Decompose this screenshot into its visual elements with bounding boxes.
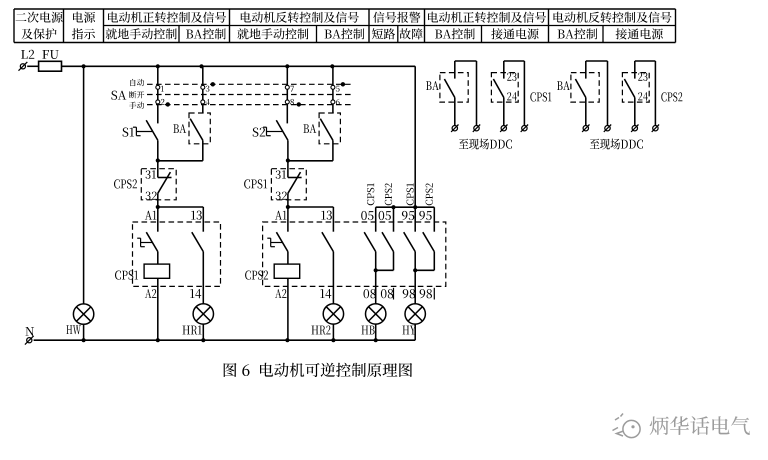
- SA contact circle 6: [331, 100, 335, 104]
- BA box DDC CPS2: [571, 73, 599, 103]
- SA contact circle 8: [285, 100, 289, 104]
- wire merge 05 pair: [376, 269, 394, 271]
- contactor box CPS1 (dashed): [133, 222, 221, 286]
- SA closed mark at 8 (manual): [297, 102, 301, 106]
- header sub-cell 就地手动控制 2: [237, 28, 308, 39]
- interlock box CPS2: [141, 169, 176, 200]
- pin 05 b: [379, 211, 391, 220]
- lamp HR1: [193, 304, 213, 324]
- junction N bus at HR1: [201, 338, 205, 342]
- BA contact b1: [190, 119, 203, 141]
- SA contact circle 5: [331, 85, 335, 89]
- pushbutton S1: [123, 128, 134, 137]
- SA position line manual (dashed): [147, 104, 352, 106]
- wire CPS loop CPS1: [504, 60, 525, 62]
- terminal BA-a CPS1: [452, 126, 457, 131]
- signal contact CPS1-05: [375, 207, 377, 232]
- SA position line auto (dashed): [147, 83, 352, 85]
- table grid of legend header: [14, 8, 676, 10]
- label CPS2 DDC: [661, 92, 682, 101]
- label 断开: [129, 91, 144, 98]
- terminal BA-b CPS2: [605, 126, 610, 131]
- label HR1: [183, 326, 202, 335]
- label N: [26, 327, 35, 336]
- wire CPS loop CPS2: [635, 60, 656, 62]
- wire signal top rail: [376, 206, 435, 208]
- label CPS2 coil: [245, 271, 268, 280]
- pin 1: [161, 86, 164, 92]
- SA closed mark at 3 (auto): [211, 82, 215, 86]
- wire HR1 to N: [202, 324, 204, 340]
- wire coil to N bus b1: [157, 278, 159, 340]
- signal contact CPS2-95: [433, 207, 435, 232]
- wire vertical bus to signal contacts: [414, 66, 416, 207]
- junction N bus at HW: [82, 338, 86, 342]
- header sub-cell BA控制 2: [325, 28, 365, 39]
- rotated label CPS1 (95): [407, 183, 414, 205]
- SA contact circle 7: [285, 85, 289, 89]
- SA contact circle 1: [156, 85, 160, 89]
- pin 98 a: [403, 289, 415, 298]
- contactor box CPS2 + signal contacts (dashed): [263, 222, 446, 286]
- wire HW to N bus: [83, 324, 85, 340]
- SA contact circle 3: [201, 85, 205, 89]
- pin 08 a: [364, 289, 376, 298]
- pin 31 b1: [146, 170, 156, 178]
- wire HY to N: [414, 324, 416, 340]
- lamp HW: [73, 304, 93, 324]
- coil CPS1: [144, 264, 170, 278]
- SA closed mark at 5 (auto): [341, 82, 345, 86]
- label 手动: [129, 102, 144, 109]
- label HB: [362, 326, 375, 335]
- caption 图6 电动机可逆控制原理图: [224, 363, 412, 377]
- label BA b2: [303, 124, 316, 133]
- watermark logo bird: [623, 420, 640, 437]
- header cell 信号报警: [373, 12, 420, 23]
- wire HW branch down: [83, 66, 85, 304]
- pin 13 b1: [191, 211, 202, 220]
- wire HR2 to N: [332, 324, 334, 340]
- terminal tick 08 b: [393, 288, 395, 300]
- contactor contact CPS1: [140, 238, 142, 247]
- wire SA branch stub x=287.3: [286, 66, 288, 85]
- terminal CPS-b CPS2: [653, 126, 658, 131]
- contactor contact CPS2: [270, 238, 272, 247]
- terminal CPS-a CPS2: [632, 126, 637, 131]
- terminal BA-a CPS2: [583, 126, 588, 131]
- aux contact 13-14 b2: [332, 207, 334, 232]
- header sub-cell BA控制: [186, 28, 226, 39]
- CPS aux box CPS1: [491, 73, 518, 103]
- SA closed mark at 2 (manual): [166, 102, 170, 106]
- pin 32 b2: [276, 192, 287, 200]
- lamp HY: [405, 304, 425, 324]
- pin 2: [161, 99, 165, 105]
- pin 4: [206, 99, 210, 105]
- terminal N: [27, 338, 32, 343]
- fuse FU: [39, 61, 62, 71]
- pin A1 b1: [145, 211, 157, 220]
- header sub-cell 短路: [372, 28, 395, 39]
- label BA DDC CPS2: [557, 81, 570, 90]
- signal contact CPS1-95: [414, 207, 416, 232]
- label 自动: [130, 79, 144, 86]
- terminal L2: [20, 64, 25, 69]
- lamp HB: [366, 304, 386, 324]
- aux contact 13-14 b1: [202, 207, 204, 232]
- pin 8: [290, 99, 294, 105]
- header sub-cell 接通电源: [491, 28, 538, 39]
- header cell 电动机反转控制及信号 (BA): [554, 12, 672, 23]
- terminal tick 98 b: [433, 288, 435, 300]
- rotated label CPS2 (95): [426, 183, 433, 205]
- wire SA branch stub x=202.8: [202, 66, 204, 85]
- header sub-cell 故障: [400, 28, 423, 39]
- label L2: [21, 50, 34, 59]
- BA contact DDC CPS1: [454, 61, 456, 79]
- pin A1 b2: [275, 211, 287, 220]
- junction N bus at HR2: [331, 338, 335, 342]
- pin 7: [290, 86, 294, 92]
- header cell 电动机反转控制及信号 (local): [241, 12, 359, 23]
- junction node A1 b2: [286, 205, 290, 209]
- wire L2 to FU: [27, 65, 39, 67]
- pin 23 CPS2: [638, 73, 647, 81]
- junction N bus at A2-2: [285, 338, 289, 342]
- wire node to 13-leg b2: [288, 206, 334, 208]
- header sub-cell 就地手动控制: [106, 28, 177, 39]
- coil CPS2: [274, 264, 300, 278]
- rotated label CPS2 (05): [385, 183, 392, 205]
- junction on bus at BA1 branch: [199, 64, 203, 68]
- BA box DDC CPS1: [440, 73, 468, 103]
- label CPS2: [114, 179, 137, 188]
- pin 24 CPS1: [507, 92, 517, 100]
- header cell 二次电源及保护: [16, 12, 63, 23]
- pin 95 a: [402, 211, 414, 220]
- wire SA branch stub x=157.8: [157, 66, 159, 85]
- label 至现场DDC CPS1: [459, 139, 512, 150]
- label BA b1: [173, 124, 186, 133]
- junction N bus at A2-1: [156, 338, 160, 342]
- wire coil to N bus b2: [287, 278, 289, 340]
- terminal CPS-b CPS1: [522, 126, 527, 131]
- junction node b2: [286, 158, 290, 162]
- wire node to 13-leg b1: [158, 206, 204, 208]
- pin A2 b2: [275, 289, 287, 298]
- pin 5: [336, 86, 340, 92]
- pin 32 b1: [146, 192, 157, 200]
- label CPS1 coil: [115, 271, 138, 280]
- label FU: [42, 50, 58, 59]
- pin 98 b: [420, 289, 432, 298]
- junction on bus at S2 branch: [285, 64, 289, 68]
- pin 23 CPS1: [507, 73, 516, 81]
- SA position line off (dashed): [147, 94, 352, 96]
- header cell 电动机正转控制及信号 (local): [108, 12, 226, 23]
- junction signal rail at bus: [413, 205, 417, 209]
- pin 14 b2: [320, 289, 331, 298]
- label HR2: [312, 325, 331, 334]
- SA contact circle 4: [201, 100, 205, 104]
- pin 31 b2: [276, 170, 286, 178]
- junction merge 05: [374, 268, 378, 272]
- junction on bus at S1 branch: [156, 64, 160, 68]
- BA contact box b1: [189, 113, 210, 144]
- BA contact box b2: [319, 113, 340, 144]
- wire SA branch stub x=332.9: [332, 66, 334, 85]
- label BA DDC CPS1: [426, 81, 439, 90]
- label HY: [403, 326, 416, 335]
- wire HB to N: [375, 324, 377, 340]
- junction signal rail at CPS2-05: [391, 205, 395, 209]
- junction merge 95: [413, 268, 417, 272]
- CPS aux contact CPS2: [634, 61, 636, 79]
- SA contact circle 2: [156, 100, 160, 104]
- rotated label CPS1 (05): [367, 183, 374, 205]
- BA contact b2: [320, 119, 333, 141]
- junction on bus at BA2 branch: [330, 64, 334, 68]
- label HW: [66, 325, 81, 334]
- header sub-cell BA控制 3: [435, 28, 475, 39]
- wire 08 down: [375, 270, 377, 303]
- pin A2 b1: [145, 289, 157, 298]
- junction on bus at HW branch: [82, 64, 86, 68]
- NC contact CPS1: [287, 161, 289, 178]
- pin 95 b: [419, 211, 431, 220]
- pin 05 a: [361, 211, 373, 220]
- label SA: [111, 91, 126, 100]
- label CPS1 DDC: [530, 92, 551, 101]
- pin 6: [336, 99, 340, 105]
- signal contact CPS2-05: [393, 207, 395, 232]
- watermark text 炳华话电气: [650, 416, 750, 435]
- pin 24 CPS2: [638, 92, 648, 100]
- CPS aux box CPS2: [622, 73, 649, 103]
- pin 14 b1: [190, 289, 201, 298]
- terminal CPS-a CPS1: [501, 126, 506, 131]
- header sub-cell BA控制 4: [558, 28, 598, 39]
- header cell 电源指示: [73, 12, 95, 23]
- wire 98 down: [414, 270, 416, 303]
- BA contact DDC CPS2: [585, 61, 587, 79]
- label 至现场DDC CPS2: [590, 139, 643, 150]
- pin 08 b: [381, 289, 393, 298]
- NC contact CPS2: [157, 161, 159, 178]
- CPS aux contact CPS1: [503, 61, 505, 79]
- wire merge 95 pair: [415, 269, 434, 271]
- wire top bus L2: [61, 65, 415, 67]
- pushbutton S2: [253, 128, 266, 137]
- terminal BA-b CPS1: [474, 126, 479, 131]
- header sub-cell 接通电源 2: [616, 28, 663, 39]
- lamp HR2: [323, 304, 343, 324]
- wire BA loop CPS1: [455, 60, 477, 62]
- label CPS1: [244, 179, 267, 188]
- pin 3: [206, 86, 210, 92]
- junction node b1: [156, 158, 160, 162]
- wire N bus: [34, 339, 416, 341]
- junction N bus at HB: [374, 338, 378, 342]
- junction node A1 b1: [156, 205, 160, 209]
- pin 13 b2: [321, 211, 332, 220]
- header cell 电动机正转控制及信号 (BA): [428, 12, 546, 23]
- interlock box CPS1: [271, 169, 306, 200]
- wire BA loop CPS2: [586, 60, 608, 62]
